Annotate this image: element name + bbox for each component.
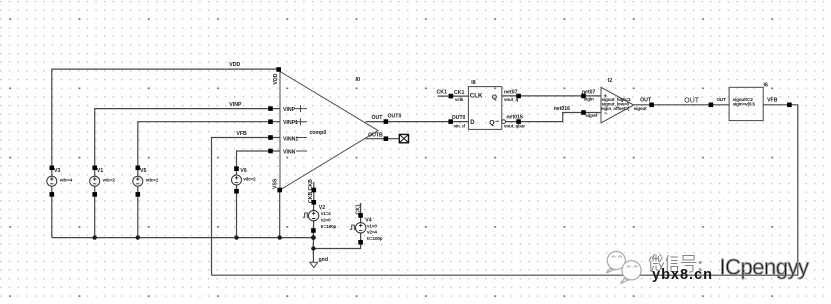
svg-text:v2=0: v2=0 [321, 218, 331, 223]
svg-text:net016: net016 [554, 106, 571, 112]
svg-text:VINP: VINP [283, 107, 296, 113]
svg-text:VINN: VINN [283, 150, 296, 156]
wire ground bus [52, 237, 314, 239]
svg-text:VINP: VINP [229, 102, 242, 108]
svg-text:I6: I6 [764, 83, 768, 89]
junction gnd/V4 branch [311, 246, 315, 250]
wire CK1 into flip-flop CLK [438, 95, 469, 97]
svg-text:V5: V5 [140, 168, 146, 174]
svg-text:CK1: CK1 [437, 89, 447, 95]
wire V6 bottom to bus [236, 191, 238, 237]
svg-text:CK1: CK1 [355, 204, 361, 214]
vdc source V1 [90, 166, 116, 197]
svg-text:V3: V3 [54, 168, 60, 174]
pin terminal I2 out [649, 103, 654, 108]
svg-text:OUT: OUT [684, 97, 700, 104]
svg-text:I8: I8 [471, 80, 475, 86]
pin terminal I6 out VFB [787, 103, 792, 108]
pin terminal VDD [276, 67, 281, 72]
svg-text:vout_qbar: vout_qbar [504, 123, 525, 128]
junction V5/bus [136, 235, 140, 239]
svg-text:I0: I0 [356, 77, 361, 83]
svg-text:VDD: VDD [273, 73, 279, 84]
wire VINN net (V6 to comparator) [237, 151, 281, 169]
svg-text:D: D [470, 120, 475, 126]
svg-text:gnd: gnd [319, 257, 329, 263]
noConn symbol on OUTB [399, 134, 408, 142]
svg-text:sigin=v(0.5: sigin=v(0.5 [733, 102, 756, 107]
junction V1/bus [93, 235, 97, 239]
wire V5 bottom to bus [137, 194, 139, 237]
watermark text 微信号: [648, 254, 701, 273]
svg-text:vdc=2: vdc=2 [146, 178, 159, 183]
pin terminal OUT [384, 119, 389, 124]
svg-text:VINP1: VINP1 [283, 120, 298, 126]
block I6 [729, 83, 768, 121]
svg-text:CLK: CLK [470, 93, 483, 100]
svg-text:v1=0: v1=0 [367, 223, 377, 228]
wire V2 bottom through bus to gnd [312, 231, 314, 263]
svg-text:vdc=4: vdc=4 [60, 178, 73, 183]
wire VDD net (V3 riser + top rail to comparator VDD) [52, 69, 279, 168]
svg-text:tr=100p: tr=100p [367, 236, 383, 241]
svg-text:tr=100p: tr=100p [321, 224, 337, 229]
svg-text:v2=4: v2=4 [367, 230, 377, 235]
flip-flop I8 [468, 80, 505, 129]
pin terminal VINN1 [268, 135, 273, 140]
svg-text:vdc=2: vdc=2 [243, 176, 256, 181]
svg-text:CK1: CK1 [454, 90, 464, 96]
wire CKB pin to V2 [313, 182, 315, 202]
pin terminal CKB [312, 188, 317, 193]
vdc source V5 [133, 166, 159, 197]
comparator I2 [601, 78, 647, 123]
junction VSS/bus [278, 235, 282, 239]
wire V3 bottom to ground bus [51, 194, 53, 237]
wire VSS pin down to bus [279, 190, 281, 238]
svg-text:VDD: VDD [229, 62, 240, 68]
watermark wechat icon [607, 252, 642, 284]
svg-text:ybx8.cn: ybx8.cn [652, 267, 713, 283]
svg-text:ICpengyy: ICpengyy [720, 255, 809, 280]
svg-text:vclk: vclk [455, 97, 464, 102]
pin terminal OUTB [384, 136, 389, 141]
wire OUTB to noConn [366, 138, 400, 140]
pin terminal VINP1 [268, 119, 273, 124]
svg-text:net016: net016 [506, 115, 523, 121]
wire gnd branch to V4 bottom [313, 242, 360, 248]
pin terminal CLK [449, 94, 454, 99]
ground symbol gnd [310, 257, 328, 268]
svg-text:VFB: VFB [767, 97, 778, 103]
junction V6/bus [234, 235, 238, 239]
pin terminal VINP [268, 106, 273, 111]
vdc source V3 [47, 166, 73, 197]
wire VINP1 net (V5 to comparator) [138, 122, 280, 168]
svg-text:V1: V1 [97, 168, 103, 174]
wire OUT net (I2 output to I6) [634, 104, 729, 106]
svg-text:−: − [604, 111, 608, 117]
svg-text:OUT: OUT [372, 115, 384, 121]
svg-text:sigin_offset=(: sigin_offset=( [601, 106, 630, 111]
wire OUT net (comparator to flip-flop D) [366, 121, 469, 123]
svg-text:I2: I2 [608, 78, 612, 84]
svg-text:sigin: sigin [584, 96, 594, 101]
pin terminal sigref [581, 110, 586, 115]
svg-text:OUT0: OUT0 [452, 115, 466, 121]
vpulse source V4 [350, 204, 383, 245]
svg-text:sigout: sigout [634, 106, 647, 111]
vdc source V6 [232, 166, 257, 193]
pin terminal Q [516, 94, 521, 99]
wire net016 (QB to I2 sigref) [505, 113, 601, 122]
pin terminal I6 in [709, 103, 714, 108]
svg-text:vin_d: vin_d [454, 123, 466, 128]
pin terminal VSS [277, 188, 282, 193]
pin terminal D [448, 119, 453, 124]
svg-text:vdc=2: vdc=2 [103, 178, 116, 183]
svg-text:VSS: VSS [273, 178, 279, 189]
svg-text:VFB: VFB [236, 131, 247, 137]
pin terminal VINN [268, 149, 273, 154]
wire VFB feedback left branch to VINN1 [212, 138, 281, 276]
pin terminal sigin [581, 94, 586, 99]
svg-text:V6: V6 [240, 168, 246, 174]
svg-text:OUTB: OUTB [368, 133, 383, 139]
junction V2/bus [311, 235, 316, 240]
vpulse source V2 [303, 200, 337, 233]
svg-text:net07: net07 [504, 90, 518, 96]
svg-text:vout_q: vout_q [504, 97, 519, 102]
svg-text:Q: Q [489, 119, 494, 126]
svg-text:comp0: comp0 [310, 130, 327, 136]
svg-text:v1=4: v1=4 [321, 211, 331, 216]
pin terminal QB [516, 119, 521, 124]
svg-text:net07: net07 [582, 90, 596, 96]
svg-text:sigref: sigref [585, 113, 597, 118]
wire V1 bottom to bus [94, 194, 96, 237]
svg-text:V2: V2 [319, 205, 325, 211]
svg-text:Q: Q [492, 94, 497, 101]
svg-text:OUT: OUT [640, 97, 652, 103]
wire VINP net (V1 to comparator) [95, 109, 280, 168]
wire net07 (Q to I2 sigin) [502, 95, 601, 97]
svg-text:OUT0: OUT0 [388, 113, 402, 119]
comparator I0 (comp0) [273, 72, 379, 204]
svg-text:OUT: OUT [717, 97, 727, 102]
wire CK1 stub above V4 [360, 203, 362, 215]
wire VFB net (I6 out, right edge, bottom return) [212, 105, 798, 275]
